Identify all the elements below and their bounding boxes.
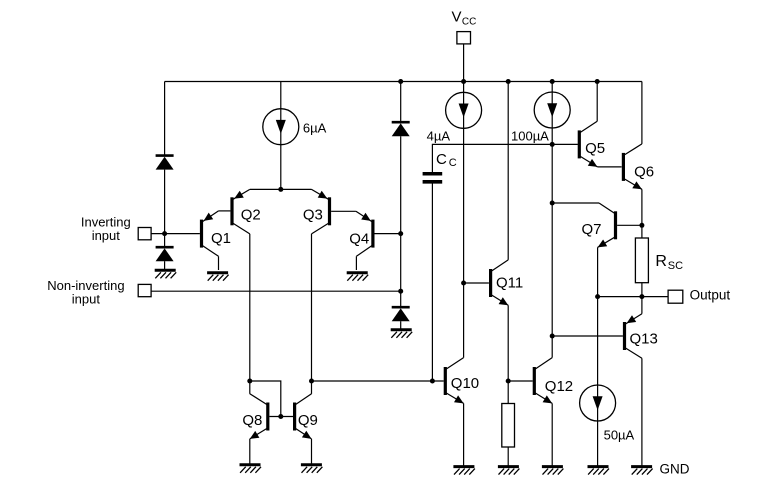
junction Q8 Q9 bases	[278, 414, 283, 419]
junction 100uA-Q5 base	[550, 142, 555, 147]
wire Q3 base to Q4 emitter	[331, 210, 356, 212]
diode D2 (ground clamp to inverting input)	[156, 246, 174, 249]
terminal Output	[668, 290, 683, 303]
wire Q1 collector to ground	[218, 256, 220, 270]
wire rail to D1	[164, 82, 166, 156]
junction output-Q7 emitter	[595, 294, 600, 299]
diode D1 (inverting input clamp to VCC)	[156, 154, 174, 157]
wire Q11 collector to rail	[507, 82, 509, 260]
wire Q12 base	[508, 380, 533, 382]
junction output-RSC	[639, 294, 644, 299]
wire Q8 Q9 base tie	[269, 416, 293, 418]
terminal VCC	[457, 32, 471, 44]
svg-text:input: input	[72, 291, 101, 306]
wire Q7 collector net	[552, 202, 599, 204]
svg-text:SC: SC	[668, 260, 683, 272]
junction Q7 base node	[639, 223, 644, 228]
junction non-inverting input node	[398, 289, 403, 294]
wire Q12 emitter to ground	[551, 403, 553, 466]
ground under Q4	[347, 271, 368, 274]
wire rail through 100uA down	[551, 82, 553, 358]
junction inverting input node	[162, 231, 167, 236]
diode D4 (ground clamp to non-inverting input)	[392, 306, 410, 309]
transistor Q2	[230, 197, 233, 225]
transistor Q12	[533, 367, 536, 395]
current source 100uA	[534, 92, 570, 128]
transistor Q3	[328, 197, 331, 225]
wire VCC terminal to rail	[463, 44, 465, 82]
wire mirror net to Q10 base	[312, 380, 444, 382]
transistor Q1	[200, 220, 203, 248]
svg-text:C: C	[449, 157, 457, 169]
svg-text:6µA: 6µA	[303, 121, 327, 136]
svg-text:Q3: Q3	[303, 206, 323, 223]
transistor Q4	[371, 220, 374, 248]
transistor Q6	[622, 153, 625, 181]
ground under Q8	[240, 463, 261, 466]
svg-text:Q4: Q4	[349, 230, 369, 247]
wire rail through 4uA to Q10 collector	[463, 82, 465, 358]
transistor Q11	[489, 269, 492, 297]
resistor R2	[502, 404, 515, 448]
resistor RSC	[635, 238, 648, 283]
diode D3 (non-inverting input clamp to VCC)	[392, 121, 410, 124]
transistor Q13	[623, 322, 626, 350]
svg-text:V: V	[452, 9, 462, 26]
svg-text:R: R	[655, 253, 667, 270]
terminal Non-inverting input	[138, 284, 151, 296]
svg-text:Q8: Q8	[242, 412, 262, 429]
current source 4uA	[446, 92, 482, 128]
transistor Q9	[293, 403, 296, 431]
ground under R2	[498, 465, 519, 468]
junction Q11 base node	[461, 281, 466, 286]
wire RSC to output node	[641, 283, 643, 314]
wire D1 to inverting input node	[164, 170, 166, 247]
svg-text:Q1: Q1	[211, 230, 231, 247]
wire Q8 emitter to ground	[249, 439, 251, 464]
wire Q5 collector to rail	[596, 82, 598, 122]
junction Q7 collector node	[550, 201, 555, 206]
wire CC bottom to mirror net	[431, 183, 433, 381]
wire output	[598, 296, 669, 298]
ground under D2	[155, 269, 176, 272]
wire Q13 base	[552, 335, 623, 337]
transistor Q10	[444, 367, 447, 395]
wire inverting input	[151, 233, 200, 235]
wire Q4 base	[375, 233, 401, 235]
ground under Q9	[301, 463, 322, 466]
wire Q5 base net	[432, 144, 578, 173]
junction rail-VCC	[461, 79, 466, 84]
ground under Q13	[631, 465, 652, 468]
transistor Q5	[578, 130, 581, 158]
wire D3 to D4	[400, 136, 402, 307]
wire Q11 base	[464, 282, 489, 284]
wire Q11 emitter down to R2	[507, 305, 509, 403]
wire Q4 collector to ground	[355, 256, 357, 270]
current source 6uA	[263, 109, 299, 145]
transistor Q8	[266, 403, 269, 431]
wire base tie to Q8 collector	[250, 381, 281, 417]
svg-text:Q6: Q6	[634, 163, 654, 180]
svg-text:Q9: Q9	[298, 412, 318, 429]
wire Q13 collector to ground	[641, 358, 643, 466]
wire non-inverting input	[151, 290, 401, 292]
svg-text:Q12: Q12	[545, 378, 573, 395]
transistor Q7	[614, 211, 617, 239]
svg-text:Q2: Q2	[241, 206, 261, 223]
ground under 50uA	[588, 465, 609, 468]
svg-text:Q5: Q5	[585, 140, 605, 157]
svg-text:input: input	[92, 228, 121, 243]
wire Q3 collector down	[311, 234, 313, 394]
junction Q8 collector node	[247, 379, 252, 384]
wire Q5 emitter to Q6 base	[597, 166, 621, 168]
wire Q9 emitter to ground	[311, 439, 313, 464]
junction rail-Q5	[595, 79, 600, 84]
terminal Inverting input	[138, 228, 151, 240]
svg-text:4µA: 4µA	[427, 129, 451, 144]
wire common emitters	[250, 188, 312, 190]
svg-text:Q7: Q7	[582, 221, 602, 238]
ground under D4	[391, 328, 412, 331]
power rail VCC net	[165, 81, 642, 83]
junction rail-D3 column	[398, 79, 403, 84]
svg-text:C: C	[436, 151, 447, 168]
svg-text:Q13: Q13	[630, 331, 658, 348]
wire D4 to ground	[400, 321, 402, 328]
junction tail	[278, 187, 283, 192]
junction Q12 base node	[506, 379, 511, 384]
svg-text:GND: GND	[660, 461, 690, 476]
ground under Q10	[453, 465, 474, 468]
capacitor CC	[423, 172, 443, 176]
wire rail to tail node	[280, 82, 282, 190]
wire R2 to ground	[507, 447, 509, 466]
svg-text:Output: Output	[690, 287, 731, 302]
wire rail end to Q6 collector	[641, 82, 643, 144]
current source 50uA	[580, 385, 616, 421]
junction Q13 base node	[550, 334, 555, 339]
svg-text:Q11: Q11	[496, 275, 523, 292]
junction Q9 collector node	[309, 379, 314, 384]
ground under Q12	[542, 465, 563, 468]
junction rail-Q11	[506, 79, 511, 84]
wire D2 to ground	[164, 261, 166, 269]
svg-text:100µA: 100µA	[511, 128, 549, 143]
svg-text:50µA: 50µA	[604, 427, 635, 442]
wire Q7 base	[617, 224, 642, 226]
wire Q10 emitter to ground	[463, 403, 465, 466]
svg-text:CC: CC	[462, 17, 476, 28]
wire rail to D3	[400, 82, 402, 122]
wire Q1 emitter to Q2 base	[219, 210, 231, 212]
svg-text:Q10: Q10	[451, 375, 479, 392]
junction Q4 base node	[398, 231, 403, 236]
wire Q2 collector down	[249, 234, 251, 394]
junction rail-100uA	[550, 79, 555, 84]
wire Q7 emitter down	[597, 247, 599, 466]
junction CC-Q10 base	[430, 379, 435, 384]
ground under Q1	[207, 271, 228, 274]
wire Q6 emitter down to RSC	[641, 189, 643, 238]
